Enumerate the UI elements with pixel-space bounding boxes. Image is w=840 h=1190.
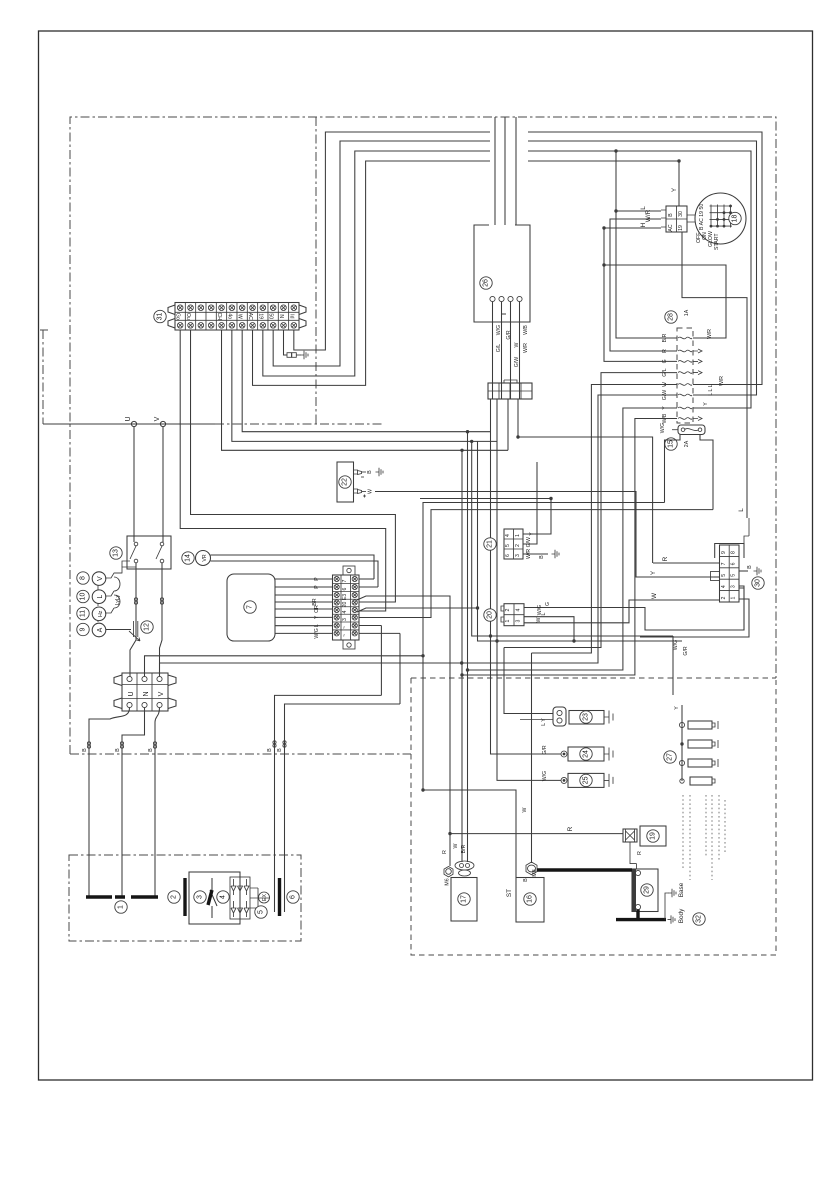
terminal block 31 pin AC: [246, 303, 248, 331]
glow plug 24 connector: [561, 751, 567, 757]
svg-text:Id: Id: [288, 314, 294, 318]
svg-text:Y: Y: [703, 402, 709, 406]
fuse 28 element B/R: [678, 337, 692, 339]
wire V to breaker: [162, 427, 164, 542]
wire pack W/B trunk: [462, 419, 677, 676]
wire block31 4o to junction row: [232, 330, 497, 441]
svg-text:EX: EX: [262, 894, 268, 901]
svg-text:P: P: [314, 585, 320, 589]
terminal block 31 pin W: [236, 303, 238, 331]
label 32: [693, 913, 705, 925]
ground Body: [668, 915, 676, 923]
exciter 6 bars: [275, 855, 285, 912]
svg-text:6: 6: [290, 895, 297, 899]
svg-text:L Y: L Y: [541, 718, 547, 726]
enclosure engine dashed box: [411, 678, 776, 955]
fuse 28 element W/B: [678, 418, 692, 420]
terminal block 31 pin N: [277, 303, 279, 331]
lamp 10: [77, 590, 89, 602]
svg-text:M6: M6: [445, 878, 451, 885]
svg-text:32: 32: [696, 915, 703, 923]
svg-text:3: 3: [731, 585, 737, 588]
svg-text:19: 19: [650, 832, 657, 840]
terminal block 31 pin Go: [177, 305, 183, 311]
wire 20 G: [524, 586, 744, 630]
enclosure generator dash-dot box: [69, 855, 301, 941]
wire long 498 line: [420, 498, 551, 500]
svg-text:W: W: [237, 314, 243, 319]
svg-text:B: B: [277, 748, 283, 752]
svg-text:W/R G/W: W/R G/W: [526, 537, 532, 559]
terminal strip tabs: [343, 566, 355, 575]
svg-text:26: 26: [483, 279, 490, 287]
terminal strip row ~: [333, 629, 360, 631]
svg-text:W: W: [522, 807, 528, 812]
svg-text:15: 15: [668, 440, 675, 448]
wires pack right: [604, 265, 726, 338]
svg-text:W/R: W/R: [523, 343, 529, 353]
glow 27 plug 2: [680, 742, 683, 745]
glow plug relay 23 body: [569, 711, 604, 725]
svg-text:R: R: [567, 826, 574, 831]
left margin dash-dot stub: [40, 330, 48, 424]
wire meters junction to breaker: [122, 561, 130, 567]
wire trunk x462 down: [461, 450, 463, 675]
svg-text:W: W: [453, 843, 459, 848]
svg-text:BR: BR: [312, 598, 318, 605]
wire 22 W long: [375, 492, 714, 578]
svg-text:W/B: W/B: [523, 325, 529, 335]
label 23: [580, 711, 592, 723]
svg-text:17: 17: [461, 895, 468, 903]
wire block31 19 top loop 3: [263, 151, 751, 408]
wire relay to battery R: [630, 842, 637, 869]
svg-text:16: 16: [527, 895, 534, 903]
svg-text:1: 1: [515, 534, 521, 537]
label 3: [194, 891, 206, 903]
box 16 starter: [516, 878, 544, 923]
glow plugs 27 rail: [681, 705, 683, 781]
svg-text:30: 30: [678, 211, 684, 217]
wire pack G/L to glow23: [504, 373, 677, 648]
wire 21 B ground: [523, 553, 548, 555]
svg-text:8: 8: [731, 551, 737, 554]
svg-text:25: 25: [583, 776, 590, 784]
svg-text:18: 18: [732, 215, 739, 223]
svg-text:11: 11: [80, 610, 87, 617]
fuse pack 28 dashed box: [677, 328, 693, 423]
label 24: [580, 748, 592, 760]
glow 27 plug 3: [679, 760, 684, 765]
label 19 box: [640, 826, 666, 846]
svg-text:29: 29: [644, 886, 651, 894]
svg-text:1: 1: [731, 597, 737, 600]
terminal block 31 pin 50: [267, 303, 269, 331]
svg-text:B: B: [115, 748, 121, 752]
wire 15 left loop: [423, 435, 680, 791]
key switch 18 circle: [695, 193, 746, 244]
svg-text:Go: Go: [175, 313, 181, 320]
svg-text:L L L: L L L: [708, 384, 714, 395]
svg-text:B: B: [539, 555, 545, 559]
thick cable battery to body ground: [616, 910, 666, 920]
svg-text:4: 4: [342, 610, 348, 613]
junction dots row: [466, 430, 469, 433]
rectifier 4 diodes: [230, 877, 250, 919]
ammeter 9: [77, 623, 89, 635]
svg-text:1: 1: [118, 905, 125, 909]
svg-text:Y: Y: [529, 532, 535, 536]
terminal block 31 body: [175, 303, 299, 331]
svg-text:2: 2: [515, 544, 521, 547]
svg-text:4: 4: [721, 585, 727, 588]
wire breaker to UNV V: [160, 563, 163, 676]
svg-text:3: 3: [342, 618, 348, 621]
UNV tabs: [114, 675, 122, 709]
label 28: [665, 311, 677, 323]
svg-text:W/G: W/G: [542, 771, 548, 781]
box 7 AVR: [227, 574, 275, 641]
wire 21 Y: [523, 499, 551, 535]
svg-text:3: 3: [197, 895, 204, 899]
connector 21: [504, 529, 523, 559]
terminal block 31 pin 3: [195, 303, 197, 331]
svg-text:4: 4: [220, 895, 227, 899]
svg-text:1: 1: [505, 619, 511, 622]
box 17: [451, 878, 477, 922]
wire key switch link to circle: [687, 215, 695, 222]
svg-text:B: B: [523, 878, 529, 882]
wire strip row E3 diagonal R feed: [357, 596, 450, 835]
wire pack Y trunk: [468, 408, 678, 670]
svg-text:H: H: [640, 222, 647, 227]
wire 26 t1 down to glow24: [491, 302, 562, 755]
connector 20: [504, 604, 524, 626]
svg-text:B: B: [82, 748, 88, 752]
svg-text:Y: Y: [650, 570, 657, 575]
voltmeter 8: [77, 572, 89, 584]
svg-text:V: V: [154, 416, 161, 421]
wire block31 N to ground: [284, 330, 288, 355]
wire 30 row1 bottom: [640, 599, 749, 637]
wire strip row8 right riser: [359, 633, 400, 704]
fuse 28 element R: [678, 350, 692, 352]
wire 30 Y in: [714, 576, 720, 578]
svg-text:4: 4: [516, 608, 522, 611]
label 7: [244, 601, 256, 613]
ground Base: [665, 893, 669, 920]
wire strip row1 up right: [359, 578, 374, 580]
svg-text:L: L: [640, 206, 647, 210]
wire strip row2 up right: [359, 586, 378, 588]
glow plug 25 body: [568, 773, 604, 787]
svg-text:50: 50: [268, 313, 274, 319]
svg-text:31: 31: [157, 313, 164, 321]
22 terminal W: [354, 489, 362, 494]
svg-text:~: ~: [342, 634, 348, 637]
wire U-V line: [43, 423, 215, 425]
wire W to starter: [531, 653, 533, 863]
fuse 15 body: [678, 425, 705, 435]
glow plug relay 23 connector: [553, 707, 566, 726]
svg-text:B AC 19 50: B AC 19 50: [699, 204, 705, 230]
wire UNV U down: [89, 708, 130, 856]
svg-text:B: B: [148, 748, 154, 752]
svg-text:20: 20: [487, 611, 494, 619]
wire 15 right loop: [359, 435, 713, 618]
enclosure divider dash-dot: [315, 117, 317, 424]
wire key L: [616, 151, 677, 338]
wire block31 AC top loop 4 to Y: [253, 161, 679, 385]
glow plug 25 connector: [561, 777, 567, 783]
svg-text:R: R: [662, 556, 669, 561]
svg-text:W/R: W/R: [707, 329, 713, 339]
terminal block 31 pin Id: [288, 303, 290, 331]
wire trunk x477 down: [478, 441, 683, 641]
relay plug: [623, 829, 637, 842]
wire trunk x467 down: [467, 432, 469, 670]
fuse 28 element G/W: [678, 394, 692, 396]
svg-text:4o: 4o: [226, 313, 232, 319]
svg-text:L: L: [541, 612, 547, 615]
svg-text:2: 2: [171, 895, 178, 899]
svg-text:14: 14: [185, 554, 192, 562]
wires top verticals into box26 area: [495, 117, 516, 225]
wire strip row7 right riser: [359, 626, 381, 696]
wire y502 extension: [423, 502, 437, 504]
svg-text:W/G: W/G: [673, 640, 679, 650]
label 13: [110, 547, 122, 559]
svg-text:G: G: [662, 359, 668, 363]
hex nut M6: [444, 867, 453, 877]
svg-text:5: 5: [258, 910, 265, 914]
wire 30 top link: [744, 518, 749, 544]
svg-text:22: 22: [342, 478, 349, 486]
svg-text:B: B: [367, 470, 373, 474]
starter connector M8: [526, 862, 537, 875]
box 22: [337, 462, 354, 502]
breaker 13 contacts: [134, 542, 138, 546]
glow plug 24 body: [568, 747, 604, 761]
svg-text:VR: VR: [202, 554, 208, 561]
wire key W/R: [610, 219, 677, 351]
wire UNV N top: [145, 656, 424, 677]
meter Hz 11: [77, 607, 89, 619]
label 18: [729, 212, 741, 224]
wire 20 L: [524, 617, 574, 641]
terminal block 31 pin 4: [205, 303, 207, 331]
wire 30 row3 down: [739, 588, 744, 630]
wires rectifier to EX: [250, 888, 270, 908]
svg-text:19: 19: [257, 313, 263, 319]
wire block31 Id top loop 1: [294, 132, 762, 385]
label 30: [752, 577, 764, 589]
svg-text:9: 9: [721, 551, 727, 554]
wire strip row 4 diagonal: [357, 608, 478, 612]
label 31: [154, 310, 166, 322]
label 12: [141, 621, 153, 633]
label 16: [524, 893, 536, 905]
svg-text:W/G: W/G: [314, 628, 320, 638]
label 2: [168, 891, 180, 903]
22 terminal B: [354, 470, 362, 475]
key switch 18 contact grid: [710, 205, 712, 228]
wire ST feed: [423, 790, 516, 878]
svg-text:B: B: [668, 213, 674, 217]
svg-text:2: 2: [505, 608, 511, 611]
wire 30 B ground: [739, 570, 748, 572]
svg-text:12: 12: [144, 623, 151, 631]
svg-text:W/R: W/R: [719, 376, 725, 386]
wire block31 col2 down to strip: [191, 330, 396, 602]
label 15: [665, 438, 677, 450]
svg-text:30: 30: [755, 579, 762, 587]
svg-text:W/G: W/G: [496, 325, 502, 335]
wire block31 50 top loop 2: [273, 141, 756, 395]
wire U to breaker: [133, 427, 135, 542]
notes dotted lines: [683, 795, 725, 880]
enclosure control panel dash-dot box: [70, 117, 776, 754]
UNV terminal block: [122, 673, 168, 711]
box 3-4: [189, 872, 240, 924]
svg-text:8: 8: [80, 576, 87, 580]
svg-text:13: 13: [113, 549, 120, 557]
key switch connector block: [666, 206, 687, 232]
svg-text:G/R: G/R: [542, 745, 548, 754]
wire block31 CH to junction row: [222, 330, 508, 450]
fuse 28 element G: [678, 361, 692, 363]
fuse 28 element G/L: [678, 372, 692, 374]
svg-text:W: W: [514, 342, 520, 347]
terminal strip row 3: [333, 613, 360, 615]
svg-text:G: G: [545, 602, 551, 606]
meter small wires: [97, 586, 99, 623]
svg-text:5: 5: [505, 544, 511, 547]
terminal strip row 6: [333, 583, 360, 585]
svg-text:CH: CH: [216, 313, 222, 321]
wire UNV V top long: [159, 663, 161, 676]
terminal block 31 mounting tabs: [168, 305, 175, 328]
svg-text:Y: Y: [674, 706, 680, 710]
svg-text:R: R: [637, 851, 643, 855]
label 29: [641, 884, 653, 896]
svg-text:G/R: G/R: [506, 330, 512, 339]
wire 21 WR GW: [523, 462, 537, 544]
key switch connector pins: [661, 210, 666, 227]
svg-text:R: R: [662, 349, 668, 353]
terminal block 31 pin 19: [257, 303, 259, 331]
battery 29: [632, 869, 658, 912]
svg-text:2A: 2A: [684, 440, 690, 447]
wire exciter B wires up: [275, 695, 401, 855]
svg-text:7: 7: [721, 562, 727, 565]
label 20: [484, 609, 496, 621]
svg-text:G/L: G/L: [496, 344, 502, 352]
wire glow23 feeds: [504, 648, 553, 714]
svg-text:N: N: [278, 314, 284, 318]
terminal strip row E3: [333, 591, 360, 593]
node U: [131, 421, 136, 426]
svg-text:ST: ST: [506, 889, 513, 897]
svg-text:U: U: [125, 416, 132, 421]
svg-text:B: B: [267, 748, 273, 752]
wire 26 t2 down to glow25: [497, 302, 561, 781]
terminal block 31 pin 4o: [226, 303, 228, 331]
wire 30 R: [653, 562, 720, 564]
wire R to relay plug: [450, 833, 623, 835]
svg-text:27: 27: [667, 753, 674, 761]
wire pack G/W trunk to UNV V: [160, 395, 678, 663]
svg-text:L: L: [314, 624, 320, 627]
label 17: [458, 893, 470, 905]
label 1: [115, 901, 127, 913]
svg-text:P: P: [314, 577, 320, 581]
svg-text:Y: Y: [314, 615, 320, 619]
terminal strip row 20: [333, 598, 360, 600]
svg-text:LyLy: LyLy: [115, 594, 121, 605]
svg-text:6: 6: [342, 587, 348, 590]
svg-text:G/W: G/W: [514, 357, 520, 367]
glow 27 plug 1: [679, 722, 684, 727]
wire trunk x450 to connector 17: [449, 834, 451, 866]
label 27: [664, 751, 676, 763]
svg-text:6: 6: [505, 554, 511, 557]
wire block31 W to junction row: [242, 330, 490, 432]
box 26 terminals: [490, 296, 495, 301]
wire 20 W: [524, 600, 719, 623]
svg-text:Hz: Hz: [98, 610, 104, 617]
wire trunk x462 to 17 connector: [462, 670, 468, 862]
node V: [160, 421, 165, 426]
wire ammeter to CT: [106, 629, 132, 631]
oval connector 17: [455, 861, 474, 870]
switch 3: [210, 878, 217, 918]
wire L from key connector to connector 30: [682, 232, 747, 518]
connector 30 grid: [720, 545, 740, 602]
VR 14: [182, 552, 194, 564]
label 26: [480, 277, 492, 289]
ground at block 31: [297, 354, 302, 356]
svg-text:7: 7: [247, 605, 254, 609]
EX 5: [259, 892, 270, 903]
wire breaker to UNV U: [130, 563, 136, 676]
label 25: [580, 774, 592, 786]
svg-text:19: 19: [678, 225, 684, 231]
svg-text:N: N: [143, 691, 150, 696]
connector block under 26: [488, 383, 532, 399]
svg-text:1A: 1A: [684, 309, 690, 316]
svg-text:G/R: G/R: [683, 646, 689, 655]
svg-text:AC: AC: [247, 313, 253, 320]
thick cable 16 to battery: [537, 868, 632, 871]
svg-text:R: R: [442, 850, 448, 854]
wire trunk x471 down: [472, 441, 673, 636]
terminal strip row ~: [333, 621, 360, 623]
wire VR to strip: [211, 555, 379, 587]
svg-text:3: 3: [516, 619, 522, 622]
svg-text:28: 28: [668, 313, 675, 321]
svg-text:Body: Body: [678, 908, 685, 923]
svg-text:5: 5: [721, 574, 727, 577]
svg-text:21: 21: [487, 540, 494, 548]
svg-text:10: 10: [80, 593, 87, 601]
fuse 28 element W: [678, 384, 692, 386]
terminal strip row 4: [333, 606, 360, 608]
svg-text:3: 3: [515, 554, 521, 557]
terminal block 31 pin CH: [215, 303, 217, 331]
wires box7 to strip: [275, 578, 333, 580]
winding 2 bar: [183, 878, 186, 916]
